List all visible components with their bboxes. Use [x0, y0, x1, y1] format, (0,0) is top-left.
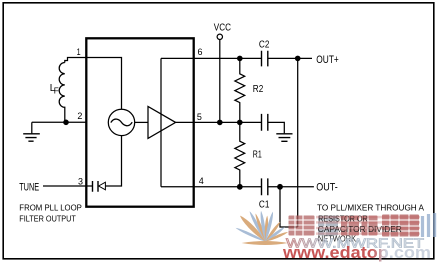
svg-text:R2: R2	[253, 83, 264, 95]
svg-text:F: F	[54, 87, 59, 96]
wire pin6 line to C2	[161, 57, 261, 59]
svg-text:TUNE: TUNE	[19, 181, 39, 193]
svg-text:www.edatop.com: www.edatop.com	[282, 243, 431, 262]
wire oscillator to amp input	[135, 121, 148, 123]
left ground symbol	[23, 134, 40, 141]
wire amp output pin5	[176, 121, 194, 123]
svg-text:C2: C2	[259, 38, 270, 50]
varactor triangle	[99, 182, 106, 190]
inductor LF	[59, 63, 65, 123]
wire bottom return	[280, 187, 298, 227]
svg-text:C1: C1	[259, 199, 270, 211]
wire pin4 line to C1	[161, 186, 261, 188]
resistor R1	[235, 122, 245, 186]
junction dots	[63, 120, 69, 126]
svg-text:FILTER OUTPUT: FILTER OUTPUT	[19, 213, 76, 223]
watermark chinese glyph row	[289, 213, 435, 237]
VCC terminal circle	[217, 34, 222, 39]
wire varactor to oscillator bottom	[106, 136, 122, 186]
mid ground symbol	[276, 134, 292, 142]
svg-text:6: 6	[198, 47, 203, 58]
svg-text:5: 5	[197, 112, 202, 123]
resistor R2	[235, 58, 245, 122]
ground left stem	[31, 122, 33, 133]
oscillator circle	[108, 109, 134, 135]
svg-text:TO PLL/MIXER THROUGH A: TO PLL/MIXER THROUGH A	[317, 203, 424, 213]
IC box U1	[86, 38, 193, 206]
svg-text:VCC: VCC	[214, 22, 231, 33]
wire C2 to OUT+	[268, 57, 312, 59]
blue glyph bars	[423, 213, 435, 237]
svg-text:FROM PLL LOOP: FROM PLL LOOP	[19, 202, 82, 212]
capacitor C2 plates	[262, 51, 268, 67]
wire TUNE to pin3	[43, 185, 86, 187]
varactor D1 bars	[93, 181, 99, 192]
svg-text:R1: R1	[253, 149, 262, 161]
svg-text:1: 1	[77, 47, 81, 58]
wire pin3 to varactor	[86, 185, 92, 187]
svg-text:OUT+: OUT+	[316, 54, 339, 66]
svg-text:3: 3	[78, 177, 83, 188]
wire internal vertical pin6-pin4	[160, 58, 162, 186]
svg-text:2: 2	[77, 111, 82, 122]
wire pin5 line to cap	[194, 121, 262, 123]
capacitor C1 plates	[262, 178, 268, 195]
watermark red tint stripes over annotation	[316, 216, 420, 235]
wire OUT+ vertical	[297, 58, 299, 227]
capacitor mid plates	[262, 114, 268, 131]
wire pin1 to oscillator top	[65, 58, 122, 110]
wire pin2 line	[32, 121, 87, 123]
amplifier triangle	[148, 106, 176, 138]
wire VCC stem	[219, 40, 221, 123]
wire C1 to OUT-	[268, 186, 314, 188]
svg-text:4: 4	[199, 176, 204, 187]
watermark fan logo	[236, 211, 288, 245]
svg-text:OUT-: OUT-	[316, 181, 338, 193]
sine wave	[111, 119, 132, 126]
wire cap to ground mid	[268, 122, 285, 133]
